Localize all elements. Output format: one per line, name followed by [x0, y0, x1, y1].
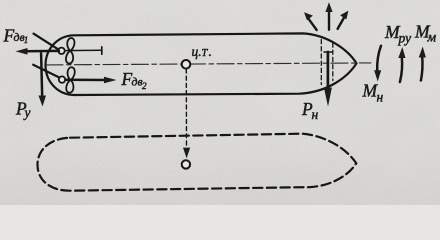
label M_m: [414, 22, 437, 45]
force arrow F_dv1 (left): [26, 50, 60, 53]
label F_dv2: [121, 69, 148, 91]
svg-text:ру: ру: [398, 30, 412, 45]
propeller U1 blades: [65, 38, 75, 64]
hull outline (main side view): [46, 33, 357, 95]
moment arrow M_py (up): [400, 57, 402, 82]
propeller U1 shaft end tick: [101, 47, 103, 55]
label M_py: [384, 22, 411, 45]
bow rudder dashed line 2: [332, 43, 334, 81]
hull centerline (dash-dot): [46, 63, 371, 65]
svg-text:ц.: ц.: [192, 44, 202, 59]
bow rudder dashed line 1: [320, 40, 322, 85]
svg-text:дв: дв: [132, 75, 143, 89]
label P_n: [301, 99, 319, 122]
bow fan arrow left: [309, 19, 317, 30]
propeller U1 hub: [58, 48, 64, 54]
moment arrow M_m (up): [421, 57, 423, 81]
bow fan arrow right: [338, 18, 344, 29]
dashed hull outline (plan view): [38, 134, 357, 191]
projection arrowhead: [183, 148, 190, 159]
bow fan arrow middle: [328, 12, 330, 30]
label M_n: [362, 81, 384, 105]
label ц.т.: [192, 44, 212, 59]
force arrow P_n (down at bow): [324, 51, 332, 53]
dashed projection line from c.g. down: [185, 69, 187, 148]
svg-text:у: у: [23, 105, 31, 120]
node center of gravity circle: [182, 60, 191, 69]
label F_dv1: [3, 25, 29, 45]
svg-text:.: .: [209, 44, 212, 59]
propeller U2 blades: [65, 67, 75, 93]
projection point circle: [182, 160, 190, 168]
moment arrow M_n (down): [377, 46, 381, 71]
propeller U2 strut: [33, 65, 59, 78]
svg-text:2: 2: [142, 81, 147, 91]
force arrow F_dv2 (right): [66, 79, 106, 82]
propeller U1 shaft: [64, 49, 102, 51]
force arrow P_y (down, stern thruster side force): [41, 53, 42, 97]
propeller U1 strut: [34, 34, 60, 51]
svg-text:н: н: [377, 90, 384, 105]
svg-text:1: 1: [24, 35, 29, 45]
propeller U2 hub: [59, 76, 65, 82]
svg-text:м: м: [427, 29, 437, 44]
label P_y: [15, 99, 31, 120]
svg-text:н: н: [312, 107, 319, 122]
